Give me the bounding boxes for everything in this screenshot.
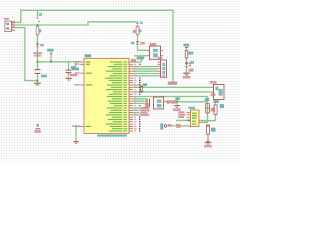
wire +5V top rail [16, 10, 174, 84]
wire IC to U3 pin1 [133, 86, 210, 88]
resonator Q1 [145, 97, 166, 109]
net label +5V [72, 67, 79, 70]
wire R4 to ground [207, 134, 209, 141]
net label at 177 [175, 97, 180, 100]
LED LED1 [185, 61, 194, 71]
wire gnd stub x177 [176, 102, 178, 105]
wire long net to box2 [133, 97, 208, 123]
junction R4 gnd [207, 140, 209, 142]
sensor U4 body [191, 110, 200, 127]
diode D1 [33, 44, 44, 57]
IC1 left pins VCC/AVCC/AREF/AGND/GND [72, 61, 92, 127]
junction at +5V supply [50, 61, 52, 63]
junction at +5V rail/D1 [37, 61, 39, 63]
wire IC GND to ground [76, 126, 81, 141]
supply flag for LED [184, 44, 190, 48]
junction box2 pin4 [188, 119, 190, 121]
wire IC to J2 row3 [133, 70, 158, 72]
net flag cluster [160, 123, 190, 129]
wire resonator out [177, 101, 208, 103]
IC1 right pins with numbers and names [105, 61, 137, 131]
wire IC to U3 pin2 [133, 91, 210, 93]
transceiver U3 [210, 81, 224, 100]
net flag [167, 100, 177, 103]
wire IC XTAL2 [133, 100, 147, 102]
label U4 [189, 107, 195, 110]
wire U3 chain down [202, 100, 216, 121]
ground [34, 83, 41, 86]
op-amp IC1 body [84, 58, 129, 133]
wire D2 to U2 [138, 35, 147, 50]
fuse F1 [36, 13, 42, 35]
resistor R3 [213, 100, 224, 114]
wire IC stub row 108 [133, 107, 140, 109]
junction reset net [141, 91, 143, 93]
wire label stub x177 [176, 100, 178, 102]
capacitor C2 [66, 66, 78, 76]
capacitor C3 [205, 98, 215, 113]
net labels A4-A7 [140, 103, 149, 116]
wire net label stub [75, 62, 77, 67]
wire USB data B [16, 28, 38, 81]
wire C2 taps [68, 62, 70, 78]
net label right of wire end [211, 93, 216, 96]
resistor R1 [140, 83, 147, 91]
wire +5V supply stub [50, 55, 52, 62]
wire reset net [133, 85, 142, 92]
wire IC XTAL1 [133, 98, 147, 100]
label IC1 [85, 54, 92, 57]
net label near IC corner [131, 59, 136, 62]
wire box2 pin4 net [176, 119, 191, 121]
connector J2 [158, 57, 167, 78]
ground [73, 141, 78, 144]
wire USB data A [16, 22, 138, 25]
wire IC to J2 row5 [133, 75, 158, 77]
wire +5V rail to IC VCC [38, 61, 81, 63]
resistor R4 [206, 125, 215, 135]
net label dots [139, 64, 140, 132]
wire IC stub row 112 [133, 112, 140, 114]
wire IC stub row 110 [133, 109, 140, 111]
net label under U2 wire [137, 57, 145, 60]
wire IC to J2 row1 [133, 66, 158, 68]
diode D2 [131, 41, 145, 45]
U4 pins [187, 112, 203, 123]
wire LED chain links [186, 48, 188, 72]
U4 pin labels [178, 111, 185, 118]
connector X1 USB [4, 18, 16, 32]
ground [173, 105, 181, 111]
net flag bottom left [34, 124, 41, 133]
junction resonator net [176, 101, 178, 103]
wire IC to J2 row4 [133, 73, 158, 75]
supply +5V [47, 49, 53, 55]
capacitor C1 [35, 69, 48, 77]
wire F1-D1 link [37, 10, 39, 82]
junction IC GND wire [75, 126, 77, 128]
label IC1 value [97, 134, 127, 136]
ground [183, 73, 191, 79]
wire IC pin1 to U2 [133, 56, 147, 62]
junction at D- gnd elbow [37, 80, 39, 82]
ground [204, 142, 212, 148]
fuse F2 [133, 22, 143, 36]
net label VCC [168, 82, 177, 85]
wire box2 bottom net [172, 125, 187, 127]
wire IC stub row 103 [133, 102, 144, 104]
junction at VBUS/F1 [37, 24, 39, 26]
wire IC stub row 115 [133, 114, 140, 116]
wire IC to J2 row2 [133, 68, 158, 70]
resistor R2 [185, 51, 193, 58]
regulator U2 [147, 43, 164, 59]
ground [66, 78, 72, 81]
